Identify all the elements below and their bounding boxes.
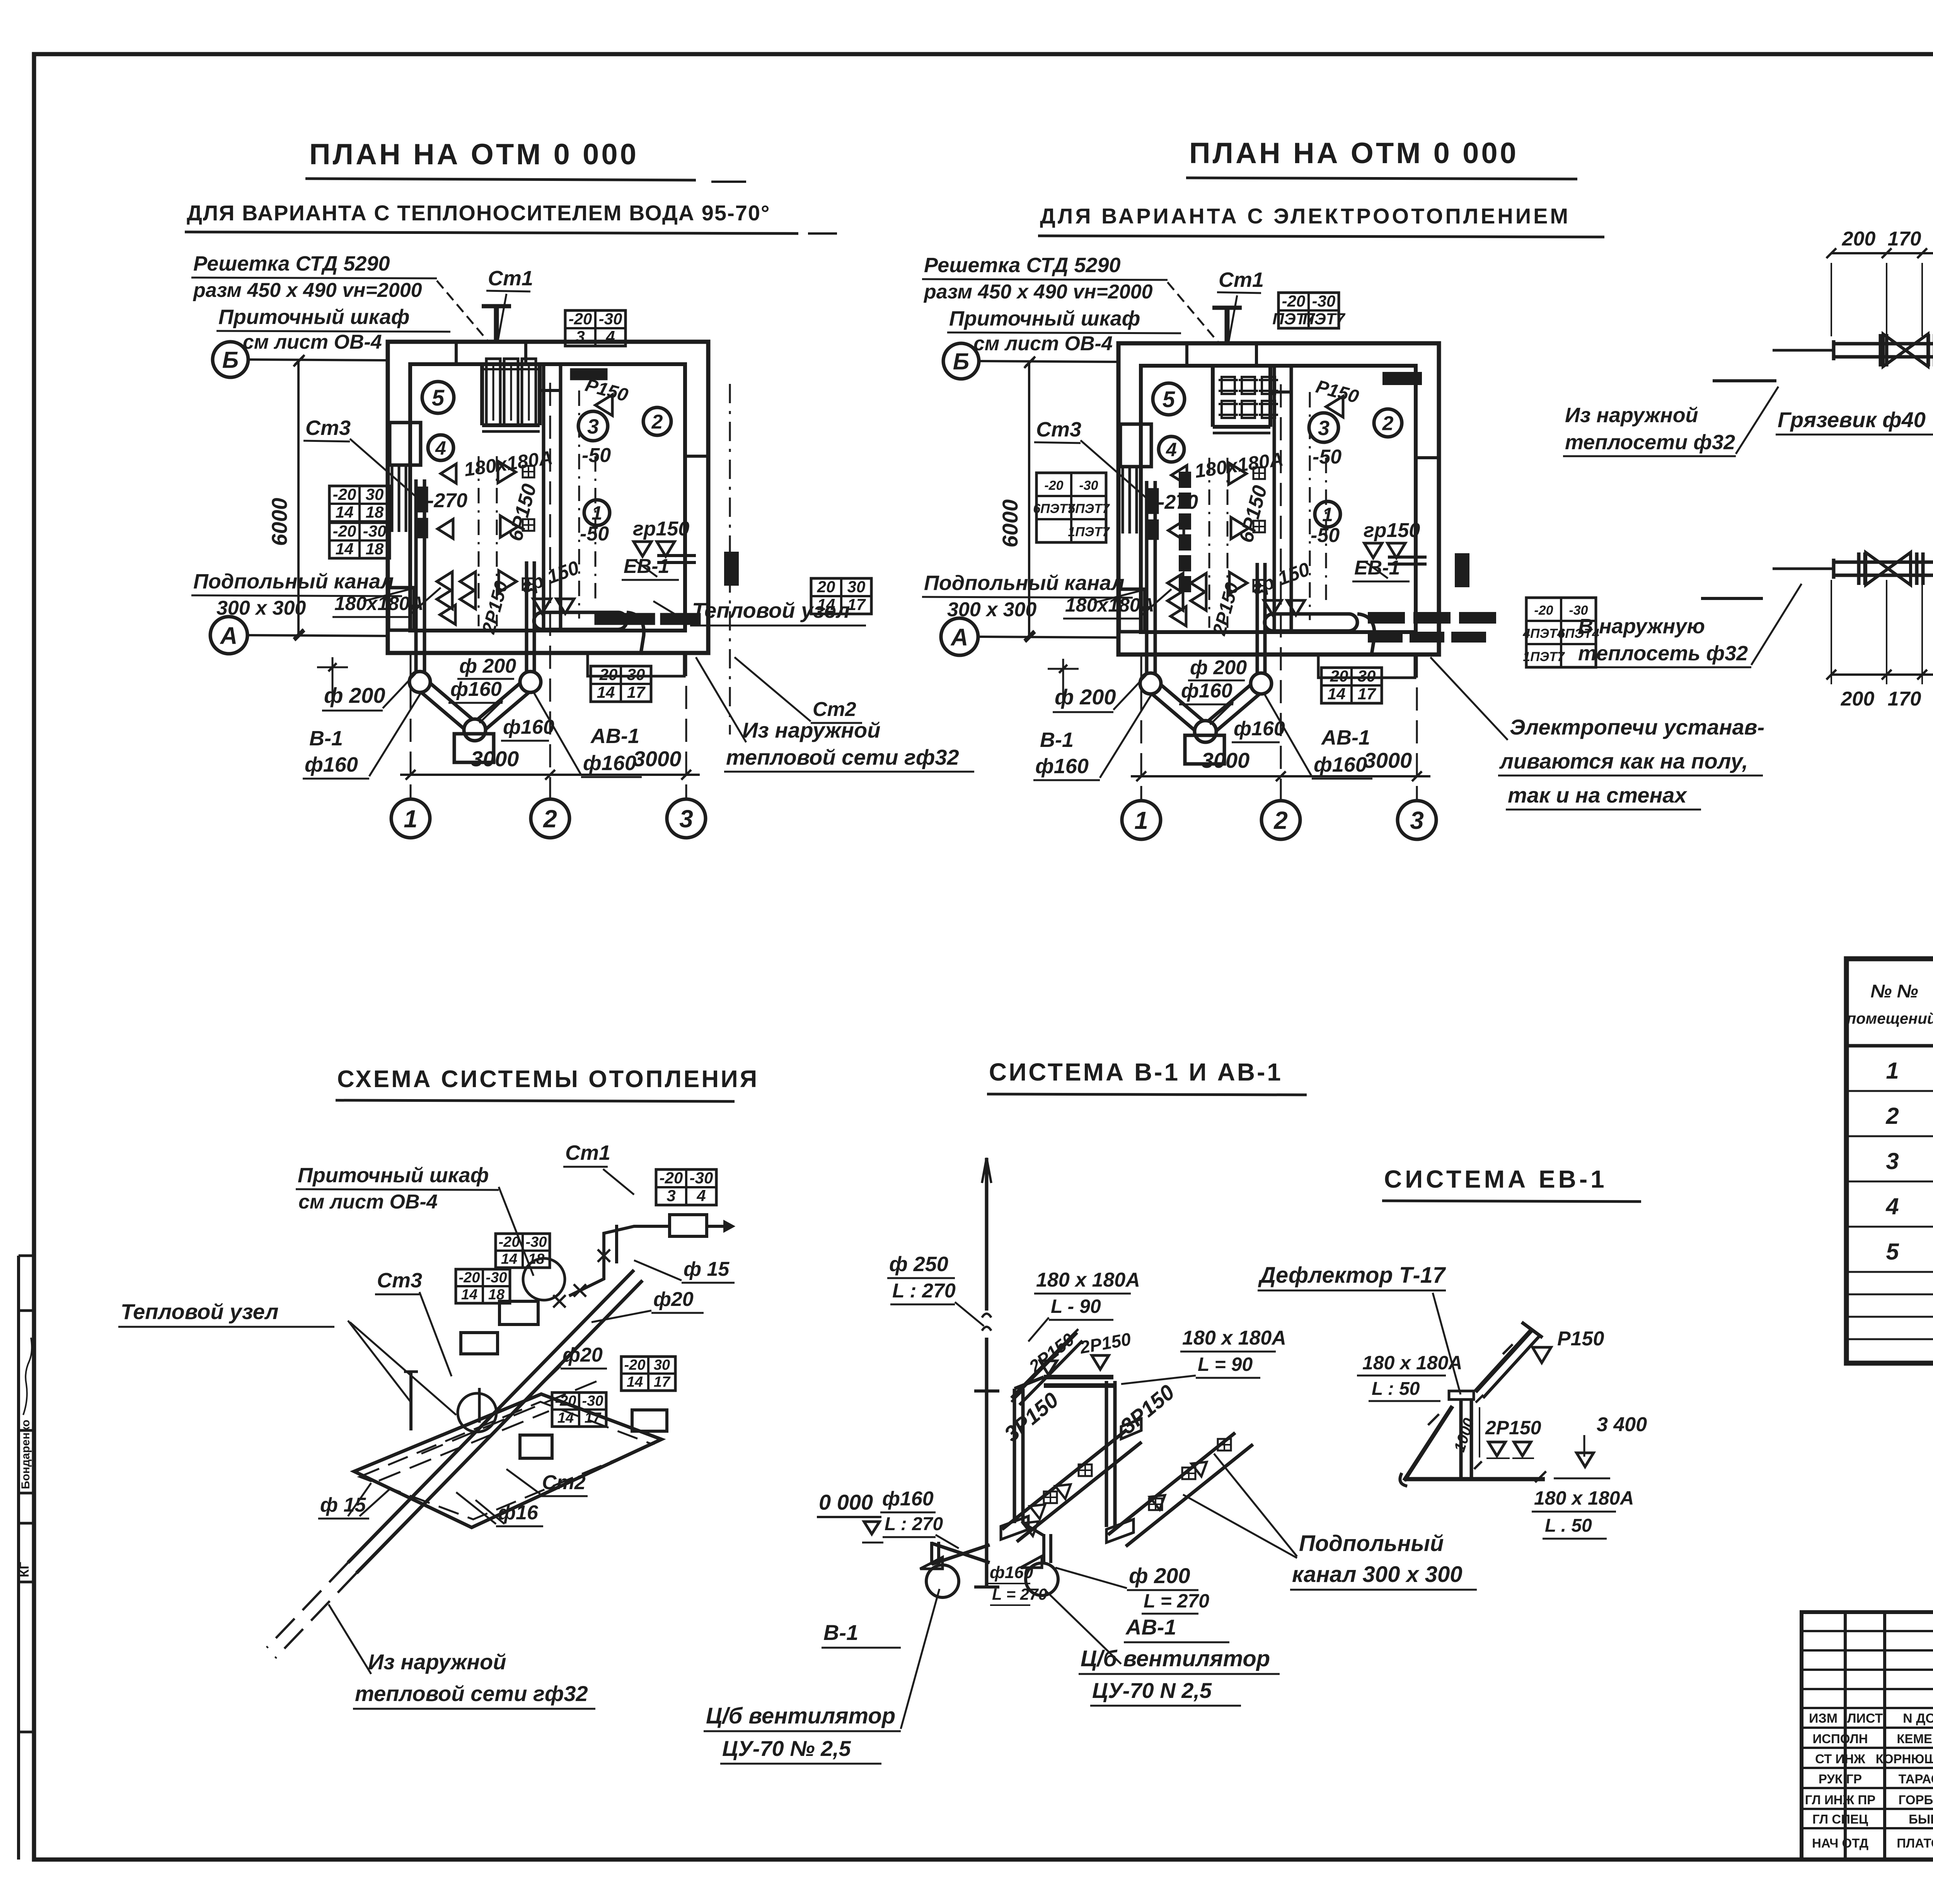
svg-text:2Р150: 2Р150	[1485, 1417, 1541, 1439]
svg-text:14: 14	[336, 503, 354, 521]
svg-text:Приточный шкаф: Приточный шкаф	[298, 1164, 489, 1187]
svg-text:2: 2	[1273, 806, 1288, 834]
svg-text:Р150: Р150	[1557, 1328, 1604, 1350]
svg-text:L : 270: L : 270	[892, 1280, 956, 1302]
svg-text:Б: Б	[222, 347, 239, 373]
svg-text:ф160: ф160	[1035, 755, 1089, 778]
svg-text:СИСТЕМА В-1 И АВ-1: СИСТЕМА В-1 И АВ-1	[989, 1058, 1283, 1086]
svg-text:Ц/б вентилятор: Ц/б вентилятор	[706, 1703, 895, 1728]
svg-text:-20: -20	[594, 665, 618, 684]
svg-text:канал 300 х 300: канал 300 х 300	[1292, 1562, 1463, 1587]
svg-text:3000: 3000	[633, 747, 682, 771]
svg-text:ДЛЯ ВАРИАНТА С ТЕПЛОНОСИТЕЛЕМ: ДЛЯ ВАРИАНТА С ТЕПЛОНОСИТЕЛЕМ ВОДА 95-70…	[187, 201, 770, 225]
svg-text:В-1: В-1	[823, 1620, 858, 1645]
svg-text:ИСПОЛН: ИСПОЛН	[1812, 1732, 1868, 1746]
svg-text:ф160: ф160	[305, 753, 358, 776]
svg-text:см лист ОВ-4: см лист ОВ-4	[243, 331, 382, 353]
svg-text:Ц/б вентилятор: Ц/б вентилятор	[1081, 1646, 1270, 1671]
svg-text:-20: -20	[459, 1270, 480, 1286]
svg-text:ф16: ф16	[498, 1502, 539, 1524]
svg-text:14: 14	[461, 1287, 477, 1303]
svg-text:14: 14	[557, 1410, 574, 1426]
svg-text:РУК ГР: РУК ГР	[1819, 1772, 1862, 1786]
svg-text:В наружную: В наружную	[1578, 615, 1705, 638]
svg-text:так и на стенах: так и на стенах	[1508, 783, 1688, 807]
svg-text:-20: -20	[333, 522, 356, 540]
svg-text:ГЛ СПЕЦ: ГЛ СПЕЦ	[1812, 1812, 1868, 1826]
svg-text:В-1: В-1	[1040, 728, 1074, 752]
svg-text:2: 2	[1885, 1103, 1899, 1129]
svg-text:ф20: ф20	[653, 1288, 694, 1311]
svg-text:1: 1	[591, 502, 602, 524]
svg-text:1ПЭТ7: 1ПЭТ7	[1523, 649, 1565, 664]
svg-text:1: 1	[404, 805, 418, 833]
svg-text:Ст1: Ст1	[1219, 268, 1264, 291]
svg-text:ЛИСТ: ЛИСТ	[1847, 1711, 1883, 1726]
svg-text:Ст1: Ст1	[565, 1141, 610, 1164]
svg-text:разм 450 х 490 vн=2000: разм 450 х 490 vн=2000	[923, 281, 1153, 303]
svg-text:ф 200: ф 200	[324, 683, 385, 707]
svg-text:L = 270: L = 270	[1144, 1590, 1209, 1612]
svg-text:А: А	[220, 622, 238, 649]
svg-text:200: 200	[1842, 228, 1876, 250]
svg-text:ЕВ-1: ЕВ-1	[1354, 557, 1400, 579]
svg-text:3000: 3000	[471, 747, 519, 771]
svg-text:ф160: ф160	[1181, 680, 1232, 702]
svg-text:Тепловой узел: Тепловой узел	[121, 1299, 278, 1324]
svg-text:170: 170	[1888, 688, 1921, 710]
svg-text:ф 15: ф 15	[684, 1258, 730, 1280]
svg-text:30: 30	[366, 485, 384, 503]
svg-text:3: 3	[1410, 806, 1424, 834]
svg-text:3: 3	[1886, 1148, 1899, 1174]
svg-text:0 000: 0 000	[819, 1490, 873, 1514]
svg-text:АВ-1: АВ-1	[1125, 1615, 1176, 1639]
svg-text:Решетка СТД 5290: Решетка СТД 5290	[193, 252, 390, 275]
svg-text:разм 450 х 490 vн=2000: разм 450 х 490 vн=2000	[193, 279, 422, 302]
svg-text:Тепловой узел: Тепловой узел	[692, 598, 850, 622]
svg-text:Ст3: Ст3	[377, 1269, 422, 1292]
svg-text:1: 1	[1886, 1058, 1899, 1084]
svg-text:ф20: ф20	[563, 1344, 603, 1366]
svg-text:см лист ОВ-4: см лист ОВ-4	[973, 332, 1113, 355]
svg-text:гр150: гр150	[1364, 519, 1420, 542]
svg-text:КОРНЮШЕНКОВА: КОРНЮШЕНКОВА	[1876, 1752, 1933, 1766]
svg-text:-20: -20	[1282, 292, 1306, 310]
svg-text:L - 90: L - 90	[1051, 1295, 1101, 1317]
svg-text:300 х 300: 300 х 300	[216, 597, 306, 619]
svg-text:Ст2: Ст2	[813, 698, 856, 721]
svg-text:170: 170	[1888, 228, 1921, 250]
svg-text:ДЛЯ ВАРИАНТА С ЭЛЕКТРООТОПЛЕНИ: ДЛЯ ВАРИАНТА С ЭЛЕКТРООТОПЛЕНИЕМ	[1040, 204, 1570, 228]
svg-text:6000: 6000	[998, 499, 1022, 548]
svg-text:ПЛАН НА ОТМ 0 000: ПЛАН НА ОТМ 0 000	[1189, 137, 1519, 170]
svg-text:18: 18	[488, 1287, 505, 1303]
svg-text:ф160: ф160	[1314, 753, 1367, 776]
svg-text:30: 30	[627, 665, 645, 684]
svg-text:200: 200	[1841, 688, 1875, 710]
svg-text:L = 270: L = 270	[992, 1585, 1047, 1603]
svg-text:-20: -20	[624, 1357, 646, 1373]
svg-text:-50: -50	[582, 444, 611, 467]
svg-text:ф 200: ф 200	[1190, 656, 1247, 679]
svg-text:ИЗМ: ИЗМ	[1809, 1711, 1838, 1726]
svg-text:-20: -20	[499, 1234, 520, 1250]
svg-text:-20: -20	[660, 1169, 683, 1187]
svg-text:-30: -30	[599, 310, 622, 328]
svg-text:2: 2	[543, 805, 557, 833]
svg-text:L : 270: L : 270	[885, 1514, 943, 1534]
svg-text:ЦУ-70 № 2,5: ЦУ-70 № 2,5	[722, 1736, 851, 1761]
svg-text:L : 50: L : 50	[1372, 1379, 1420, 1399]
svg-text:теплосеть ф32: теплосеть ф32	[1578, 642, 1748, 665]
svg-text:ГЛ ИНЖ ПР: ГЛ ИНЖ ПР	[1805, 1793, 1875, 1807]
svg-text:ПЛАН НА ОТМ 0 000: ПЛАН НА ОТМ 0 000	[309, 138, 639, 171]
svg-text:Ст1: Ст1	[488, 267, 533, 290]
svg-text:4: 4	[1166, 439, 1177, 460]
svg-text:ф 15: ф 15	[320, 1494, 366, 1516]
svg-text:КГ: КГ	[17, 1562, 32, 1577]
svg-text:L . 50: L . 50	[1545, 1515, 1592, 1536]
svg-text:ф 250: ф 250	[889, 1253, 948, 1276]
svg-text:3: 3	[679, 805, 693, 833]
svg-text:14: 14	[336, 540, 354, 558]
svg-text:180 х 180А: 180 х 180А	[1534, 1487, 1634, 1509]
svg-text:180х180А: 180х180А	[334, 593, 424, 614]
svg-text:-30: -30	[363, 522, 387, 540]
svg-text:18: 18	[528, 1251, 545, 1267]
svg-text:-20: -20	[555, 1393, 576, 1409]
svg-text:3: 3	[587, 415, 599, 438]
svg-text:-30: -30	[486, 1270, 507, 1286]
svg-text:СИСТЕМА ЕВ-1: СИСТЕМА ЕВ-1	[1384, 1165, 1607, 1193]
svg-text:КЕМЕНОВА: КЕМЕНОВА	[1897, 1732, 1933, 1746]
svg-text:теплосети ф32: теплосети ф32	[1565, 431, 1735, 454]
svg-text:ф160: ф160	[882, 1488, 934, 1510]
svg-text:14: 14	[627, 1374, 643, 1390]
svg-text:18: 18	[366, 540, 384, 558]
svg-text:-20: -20	[1325, 667, 1348, 685]
svg-text:СХЕМА СИСТЕМЫ ОТОПЛЕНИЯ: СХЕМА СИСТЕМЫ ОТОПЛЕНИЯ	[337, 1066, 759, 1093]
svg-text:4: 4	[1885, 1193, 1899, 1219]
svg-text:4: 4	[435, 437, 446, 459]
svg-text:Ст3: Ст3	[305, 416, 351, 440]
svg-text:1: 1	[1322, 504, 1333, 525]
svg-text:ф 200: ф 200	[459, 655, 516, 677]
svg-text:Дефлектор Т-17: Дефлектор Т-17	[1258, 1263, 1446, 1288]
svg-text:АВ-1: АВ-1	[1321, 726, 1370, 749]
svg-text:300 х 300: 300 х 300	[947, 598, 1036, 621]
svg-text:5: 5	[1886, 1239, 1899, 1265]
svg-text:А: А	[950, 624, 968, 651]
svg-text:-50: -50	[1311, 524, 1340, 547]
svg-text:N ДОКУМ: N ДОКУМ	[1903, 1711, 1933, 1726]
svg-text:ф160: ф160	[1234, 718, 1285, 740]
svg-text:18: 18	[366, 503, 384, 521]
svg-text:3000: 3000	[1202, 748, 1250, 772]
svg-text:-50: -50	[580, 523, 609, 545]
svg-text:180 х 180А: 180 х 180А	[1182, 1327, 1286, 1349]
svg-text:L = 90: L = 90	[1198, 1353, 1253, 1375]
svg-text:2: 2	[651, 411, 663, 433]
svg-text:ф 200: ф 200	[1055, 685, 1116, 709]
svg-text:СТ ИНЖ: СТ ИНЖ	[1815, 1752, 1865, 1766]
svg-text:Из наружной: Из наружной	[742, 718, 880, 742]
svg-text:20: 20	[817, 578, 835, 596]
svg-text:ЦУ-70 N 2,5: ЦУ-70 N 2,5	[1092, 1678, 1212, 1703]
svg-text:Б: Б	[953, 349, 969, 375]
svg-text:ТАРАСОВА: ТАРАСОВА	[1899, 1772, 1933, 1786]
svg-text:Ст3: Ст3	[1036, 418, 1081, 441]
svg-text:3000: 3000	[1364, 748, 1412, 772]
svg-text:-30: -30	[1312, 292, 1336, 310]
svg-text:БЫКОВ: БЫКОВ	[1909, 1812, 1933, 1826]
svg-text:Бондаренко: Бондаренко	[19, 1420, 32, 1489]
svg-text:3: 3	[576, 327, 585, 346]
svg-text:Решетка СТД 5290: Решетка СТД 5290	[924, 254, 1121, 277]
svg-text:Из наружной: Из наружной	[1565, 404, 1698, 427]
svg-text:ф 200: ф 200	[1129, 1563, 1190, 1588]
svg-text:17: 17	[585, 1410, 602, 1426]
svg-text:5: 5	[432, 385, 445, 411]
svg-text:17: 17	[627, 683, 646, 701]
svg-text:Грязевик ф40: Грязевик ф40	[1778, 407, 1926, 432]
svg-text:1: 1	[1134, 806, 1148, 834]
svg-text:4: 4	[696, 1186, 706, 1205]
svg-text:АВ-1: АВ-1	[590, 724, 639, 748]
svg-text:17: 17	[847, 595, 866, 614]
svg-text:5: 5	[1163, 387, 1175, 412]
svg-text:-20: -20	[1044, 478, 1063, 493]
svg-text:ПЛАТОНОВ: ПЛАТОНОВ	[1897, 1836, 1933, 1850]
svg-text:В-1: В-1	[309, 727, 343, 750]
svg-text:3 400: 3 400	[1597, 1413, 1647, 1436]
svg-text:гр150: гр150	[633, 518, 689, 540]
svg-text:Подпольный: Подпольный	[1299, 1531, 1444, 1556]
svg-text:ПЭТ7: ПЭТ7	[1302, 310, 1345, 328]
svg-text:тепловой сети гф32: тепловой сети гф32	[726, 745, 959, 769]
svg-text:2: 2	[1382, 413, 1394, 435]
svg-text:-20: -20	[569, 310, 592, 328]
svg-text:4: 4	[605, 327, 615, 346]
svg-text:30: 30	[847, 578, 866, 596]
svg-text:180х180А: 180х180А	[1065, 594, 1154, 616]
svg-text:Электропечи устанав-: Электропечи устанав-	[1510, 715, 1764, 739]
svg-text:Подпольный канал: Подпольный канал	[193, 570, 394, 593]
svg-text:17: 17	[654, 1374, 671, 1390]
svg-text:-270: -270	[427, 489, 467, 512]
svg-text:6000: 6000	[267, 498, 291, 546]
svg-text:тепловой сети гф32: тепловой сети гф32	[355, 1681, 588, 1706]
svg-text:-30: -30	[526, 1234, 547, 1250]
svg-text:Подпольный канал: Подпольный канал	[924, 571, 1125, 595]
svg-text:ливаются как на полу,: ливаются как на полу,	[1499, 749, 1748, 773]
svg-text:помещений: помещений	[1847, 1010, 1933, 1027]
svg-text:-50: -50	[1313, 446, 1342, 468]
svg-text:ГОРБАЧЕВ: ГОРБАЧЕВ	[1899, 1793, 1933, 1807]
svg-text:-30: -30	[690, 1169, 713, 1187]
svg-text:3: 3	[666, 1186, 675, 1205]
svg-text:180 х 180А: 180 х 180А	[1362, 1352, 1463, 1374]
svg-text:14: 14	[501, 1251, 517, 1267]
svg-text:см лист ОВ-4: см лист ОВ-4	[298, 1191, 438, 1213]
svg-text:180 х 180А: 180 х 180А	[1036, 1269, 1140, 1291]
svg-text:30: 30	[654, 1357, 670, 1373]
svg-text:30: 30	[1358, 667, 1376, 685]
svg-text:14: 14	[597, 683, 615, 701]
svg-text:ЕВ-1: ЕВ-1	[624, 555, 669, 578]
svg-text:-270: -270	[1158, 491, 1198, 513]
svg-text:3: 3	[1318, 416, 1330, 440]
svg-text:17: 17	[1358, 685, 1376, 703]
svg-text:Ст2: Ст2	[542, 1471, 586, 1494]
svg-text:Из наружной: Из наружной	[368, 1650, 506, 1674]
svg-text:14: 14	[1328, 685, 1346, 703]
svg-text:Приточный шкаф: Приточный шкаф	[949, 307, 1140, 330]
svg-text:1ПЭТ7: 1ПЭТ7	[1068, 525, 1110, 539]
svg-text:ф160: ф160	[583, 752, 636, 775]
svg-text:-30: -30	[582, 1393, 603, 1409]
svg-text:№ №: № №	[1870, 981, 1918, 1002]
svg-text:-30: -30	[1079, 478, 1098, 493]
svg-text:-20: -20	[1534, 603, 1553, 618]
svg-text:-20: -20	[333, 485, 356, 503]
svg-text:Приточный шкаф: Приточный шкаф	[218, 305, 409, 329]
svg-text:ф160: ф160	[450, 678, 502, 701]
svg-text:5ПЭТ7: 5ПЭТ7	[1068, 501, 1110, 516]
svg-text:НАЧ ОТД: НАЧ ОТД	[1812, 1836, 1868, 1850]
svg-text:ф160: ф160	[990, 1563, 1033, 1582]
svg-text:ф160: ф160	[503, 716, 554, 738]
